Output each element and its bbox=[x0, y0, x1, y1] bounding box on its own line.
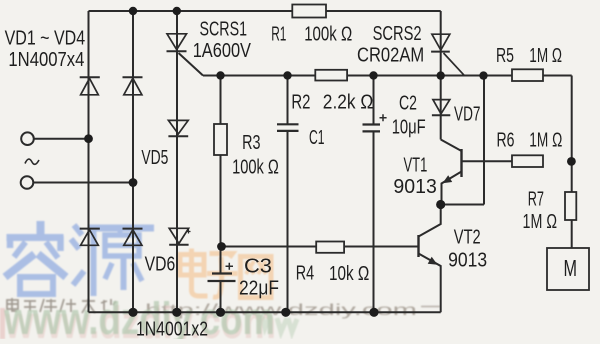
svg-text:R2: R2 bbox=[291, 90, 310, 113]
svg-text:C1: C1 bbox=[309, 126, 325, 149]
svg-text:VD1 ~ VD4: VD1 ~ VD4 bbox=[5, 27, 86, 50]
svg-text:R5: R5 bbox=[496, 44, 514, 67]
svg-text:R1: R1 bbox=[271, 22, 286, 45]
svg-text:VT2: VT2 bbox=[454, 226, 481, 249]
svg-text:C3: C3 bbox=[244, 255, 272, 278]
svg-text:SCRS1: SCRS1 bbox=[200, 18, 248, 41]
svg-text:100k Ω: 100k Ω bbox=[232, 156, 279, 179]
svg-text:9013: 9013 bbox=[393, 175, 436, 198]
svg-text:R4: R4 bbox=[296, 262, 314, 285]
svg-text:R6: R6 bbox=[497, 129, 515, 152]
svg-text:100k Ω: 100k Ω bbox=[304, 23, 352, 46]
svg-text:C2: C2 bbox=[399, 92, 417, 115]
svg-text:VD5: VD5 bbox=[141, 146, 168, 169]
svg-text:1A600V: 1A600V bbox=[193, 39, 252, 62]
svg-text:M: M bbox=[564, 255, 578, 281]
svg-text:CR02AM: CR02AM bbox=[357, 44, 424, 67]
svg-text:VT1: VT1 bbox=[404, 153, 428, 176]
svg-text:10μF: 10μF bbox=[392, 116, 426, 139]
svg-text:R3: R3 bbox=[242, 131, 260, 154]
svg-text:9013: 9013 bbox=[448, 249, 487, 272]
svg-text:VD7: VD7 bbox=[454, 102, 481, 125]
svg-text:10k Ω: 10k Ω bbox=[329, 262, 369, 285]
svg-text:2.2k Ω: 2.2k Ω bbox=[323, 90, 374, 113]
svg-text:1N4001x2: 1N4001x2 bbox=[136, 318, 208, 339]
svg-text:VD6: VD6 bbox=[145, 253, 176, 276]
svg-text:R7: R7 bbox=[528, 187, 544, 210]
svg-text:1N4007x4: 1N4007x4 bbox=[8, 48, 84, 71]
svg-text:SCRS2: SCRS2 bbox=[373, 22, 422, 45]
svg-text:1M Ω: 1M Ω bbox=[523, 210, 558, 233]
svg-text:1M Ω: 1M Ω bbox=[529, 44, 562, 67]
svg-text:22μF: 22μF bbox=[239, 277, 279, 300]
svg-text:1M Ω: 1M Ω bbox=[529, 129, 562, 152]
